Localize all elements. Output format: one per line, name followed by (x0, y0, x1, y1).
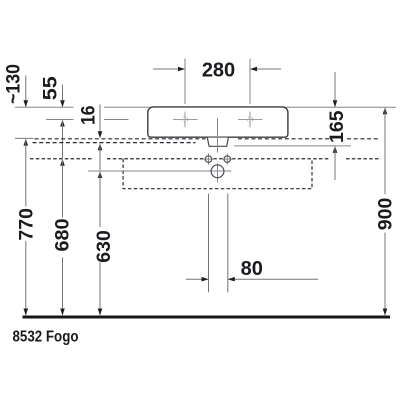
node faucet axis line B (46, 119, 74, 121)
node arrow 55 up (60, 120, 65, 127)
wire extension 280 right (249, 59, 251, 105)
wire dim 165 shaft upper (334, 72, 336, 107)
svg-text:770: 770 (15, 208, 37, 241)
node arrow 80 left (202, 277, 209, 282)
node faucet cross left (173, 119, 198, 121)
svg-text:900: 900 (374, 198, 396, 231)
svg-text:680: 680 (51, 218, 73, 251)
svg-text:280: 280 (202, 59, 235, 81)
wire dim 900 shaft lower (384, 233, 386, 315)
node console bottom dashed line (33, 142, 196, 144)
wire dim 280 left shaft (153, 68, 184, 70)
wire dim ~130 shaft (25, 76, 27, 107)
wire drain width left line (208, 194, 210, 293)
node arrow 630 down (98, 309, 103, 316)
node arrow 630 up (98, 171, 103, 178)
svg-text:55: 55 (39, 76, 61, 100)
svg-text:80: 80 (241, 258, 263, 280)
wire dim 770 shaft lower (25, 241, 27, 315)
node vertical centerline (217, 118, 219, 153)
node arrow 280 right (250, 67, 257, 72)
wire dim 55-680 shaft (62, 121, 64, 159)
svg-text:16: 16 (77, 105, 99, 125)
washbasin body (148, 107, 288, 137)
wire dim 80 right shaft (229, 278, 319, 280)
node dashed console rectangle (123, 159, 312, 189)
node arrow 165 down (333, 100, 338, 107)
node arrow 770 up (24, 139, 29, 146)
wire dim 280 right shaft (251, 68, 281, 70)
svg-text:~130: ~130 (2, 64, 24, 104)
node arrow 900 down (383, 309, 388, 316)
node arrow 16 up (98, 143, 103, 150)
node arrow 680 up (60, 159, 65, 166)
node drain circle (211, 165, 224, 178)
wire extension 280 left (184, 59, 186, 105)
wire dim 630 shaft upper (99, 172, 101, 227)
node arrow 80 right (228, 277, 235, 282)
wire dim 900 shaft upper (384, 108, 386, 194)
node arrow 280 left (178, 67, 185, 72)
node arrow 680 down (60, 309, 65, 316)
node arrow 55 down (60, 100, 65, 107)
wire dim 680 shaft upper (62, 160, 64, 218)
wire dim 770 shaft upper (25, 140, 27, 207)
node console top dashed line (35, 138, 206, 140)
wire dim 630 shaft lower (99, 263, 101, 315)
node rim reference line A (15, 106, 74, 108)
node console top reference stub (15, 137, 34, 139)
node arrow 770 down (24, 309, 29, 316)
wire dim 165 shaft lower (334, 147, 336, 180)
svg-text:8532 Fogo: 8532 Fogo (13, 328, 79, 345)
node fixing holes dashed line (30, 158, 93, 160)
svg-text:630: 630 (93, 230, 115, 263)
node drain axis line (88, 170, 231, 172)
node fixing hole left (203, 158, 214, 160)
node arrow 900 up (383, 107, 388, 114)
node fixing hole right (222, 158, 233, 160)
node arrow 165 up (333, 146, 338, 153)
svg-text:165: 165 (326, 110, 348, 143)
wire dim 80 left shaft (186, 278, 208, 280)
drain boss trapezoid (207, 138, 228, 147)
wire dim 16-630 shaft (99, 144, 101, 170)
floor line (23, 316, 391, 319)
wire dim 680 shaft lower (62, 258, 64, 315)
node arrow ~130 down (24, 100, 29, 107)
node faucet cross right (238, 119, 263, 121)
wire drain width right line (227, 194, 229, 293)
wire dim 55 shaft top (62, 85, 64, 107)
node arrow 16 down (98, 131, 103, 138)
node bracket line right (234, 145, 351, 147)
wire dim 16 upper shaft (99, 105, 101, 138)
